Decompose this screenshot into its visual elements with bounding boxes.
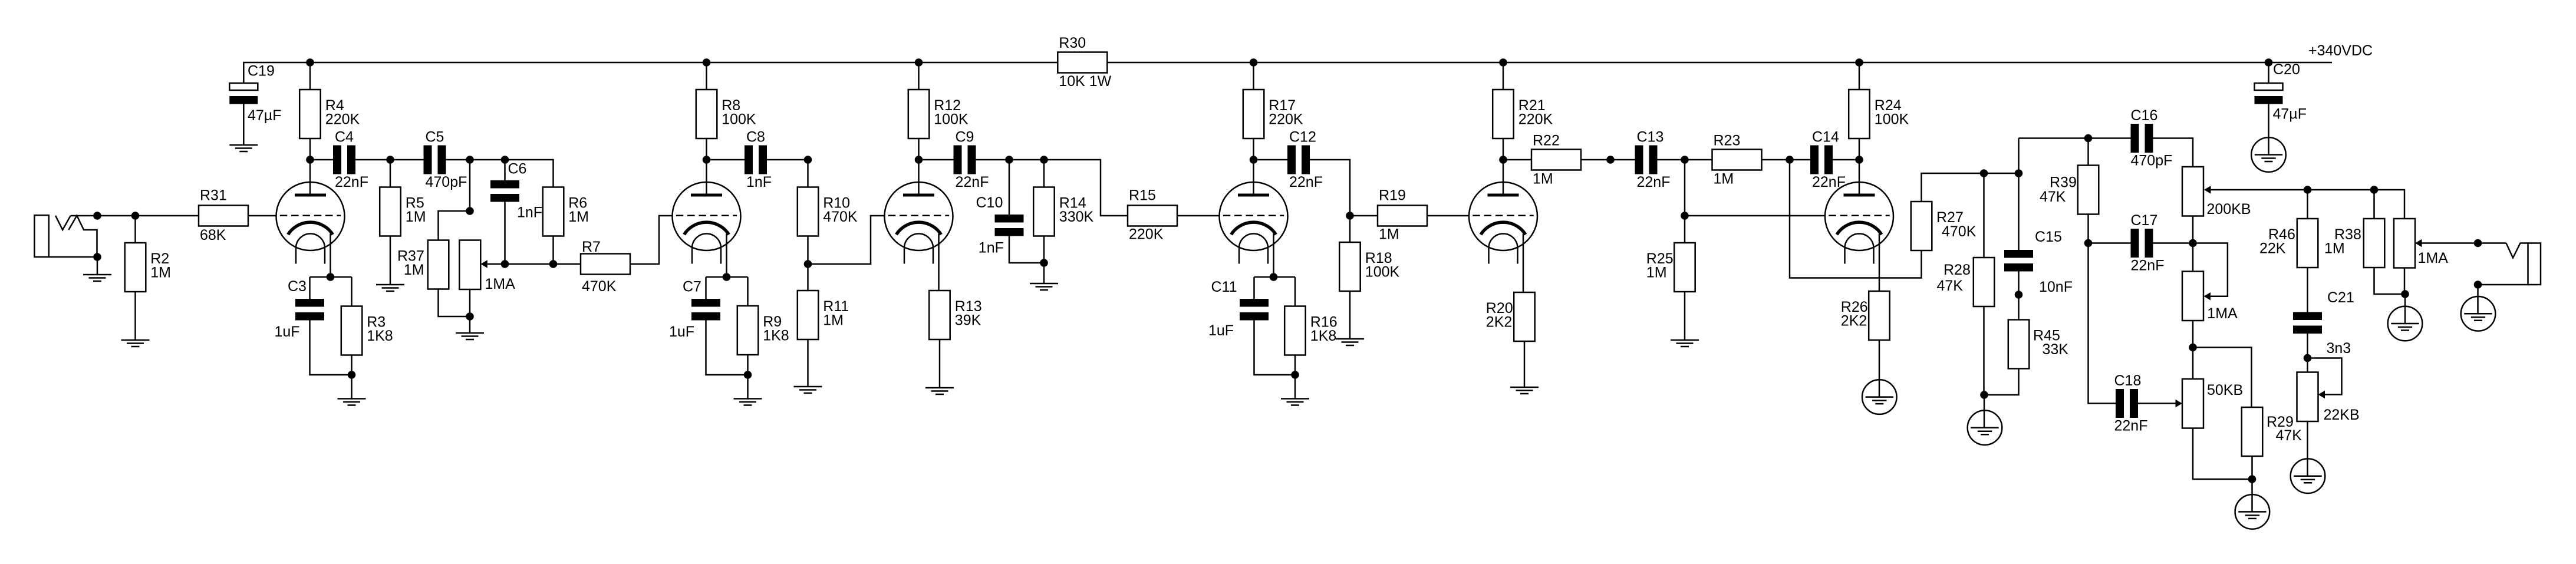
wire R5 node to C5 [390, 159, 424, 161]
wire C7 bottom lead [706, 321, 748, 375]
resistor R45 [2008, 320, 2069, 369]
junction 50KB/R29 bottom [2248, 475, 2257, 483]
svg-text:1M: 1M [1646, 265, 1667, 281]
resistor R39 [2040, 166, 2099, 215]
svg-text:C4: C4 [335, 129, 354, 146]
input jack J1 [34, 215, 97, 257]
wire R38 top lead [2373, 190, 2375, 219]
svg-text:100K: 100K [722, 111, 756, 128]
resistor R6 [543, 187, 589, 236]
ground C19 [229, 145, 258, 151]
svg-text:22nF: 22nF [1637, 174, 1671, 190]
junction tone mid node [2189, 239, 2197, 248]
wire R15 to V4 grid [1177, 215, 1220, 217]
junction rail at R17 [1250, 58, 1258, 67]
chassis ground R26 [1862, 380, 1897, 414]
svg-text:1nF: 1nF [517, 205, 542, 221]
ground stage 2 cathode [734, 399, 762, 405]
wire R2 top lead [134, 216, 136, 243]
wire feedback bus to R7 [487, 263, 581, 265]
resistor R22 [1531, 133, 1581, 187]
wire C18 to 50KB wiper [2138, 403, 2176, 404]
wire V2 plate lead [706, 160, 707, 195]
wire R29 bottom lead [2251, 456, 2253, 512]
junction R22/C13 node [1606, 156, 1615, 164]
wire C13 to R23 [1658, 159, 1713, 161]
capacitor C19 [229, 63, 281, 124]
wire R7 to V2 grid [630, 216, 673, 264]
resistor R37 [397, 240, 449, 289]
svg-text:1uF: 1uF [669, 324, 694, 340]
wire R25 bottom lead [1684, 292, 1686, 340]
wire to R37 top [439, 211, 470, 240]
junction R39/C17 node [2084, 239, 2093, 248]
wire to chassis ground [1984, 395, 1985, 428]
junction C10/R14 bottom [1040, 259, 1048, 267]
junction C6 node [501, 156, 509, 164]
junction R28/R45 bottom [1980, 391, 1988, 399]
wire to R29 top [2193, 348, 2252, 408]
svg-text:10nF: 10nF [2039, 279, 2073, 295]
junction C7/R9 bottom [744, 371, 752, 379]
wire R9 top lead [747, 277, 749, 306]
svg-text:330K: 330K [1059, 209, 1094, 225]
svg-text:+340VDC: +340VDC [2308, 42, 2373, 59]
svg-text:R19: R19 [1379, 187, 1406, 204]
svg-text:1MA: 1MA [2207, 305, 2238, 322]
junction V2 anode node [703, 156, 711, 164]
potentiometer 1MA (stage 1) [459, 240, 515, 293]
capacitor C6 [490, 161, 542, 221]
wire R11 bottom lead [807, 339, 809, 387]
wire R45 bottom lead [1984, 369, 2019, 395]
svg-text:1K8: 1K8 [1310, 328, 1336, 344]
ground C10/R14 [1030, 283, 1058, 290]
wire 200KB bottom lead [2192, 216, 2194, 243]
wire node to R19 [1350, 215, 1378, 217]
wire C5 to C6 node [446, 160, 554, 187]
wire to V3 grid [808, 216, 885, 264]
capacitor C12 [1287, 129, 1323, 191]
wire treble feed [2019, 137, 2131, 139]
wire 1MA pot bottom [469, 289, 471, 333]
junction R23/C14 node [1786, 156, 1794, 164]
svg-text:R15: R15 [1129, 187, 1156, 204]
svg-text:22nF: 22nF [956, 174, 989, 190]
svg-text:C7: C7 [683, 279, 701, 295]
wire C16 to 200KB [2153, 138, 2193, 167]
svg-text:1MA: 1MA [2418, 250, 2449, 266]
wire anode to C8 [707, 159, 745, 161]
wire cathode node 4 [1254, 276, 1296, 278]
junction output node [2474, 239, 2482, 248]
svg-text:470K: 470K [1942, 223, 1977, 240]
wire V6 plate lead [1859, 160, 1860, 195]
wiper arrow of 1MA pot [480, 260, 487, 268]
junction V1 anode node [306, 156, 314, 164]
capacitor C17 [2131, 212, 2165, 274]
triode V3 [885, 182, 953, 264]
wire R4 top lead [309, 62, 311, 90]
triode V2 [673, 182, 741, 264]
junction rail at R8 [703, 58, 711, 67]
junction rail at C20 [2265, 58, 2273, 67]
capacitor C21 [2293, 289, 2354, 357]
resistor R14 [1033, 187, 1093, 236]
resistor R38 [2324, 219, 2384, 268]
wire R8 bottom lead [706, 139, 707, 160]
junction V5 anode node [1499, 156, 1507, 164]
capacitor C13 [1635, 129, 1671, 191]
svg-text:100K: 100K [1875, 111, 1909, 128]
wire jack sleeve [49, 256, 97, 258]
resistor R26 [1841, 291, 1890, 340]
wire jack sleeve to ground [97, 257, 98, 275]
junction C13/R23/R25 node [1681, 156, 1689, 164]
potentiometer 200KB treble [2182, 167, 2251, 217]
wire R5 top lead [390, 160, 391, 187]
junction V6 anode node [1855, 156, 1863, 164]
wire C3 top lead [309, 277, 311, 299]
junction R6 bottom on bus [549, 260, 558, 268]
triode V4 [1220, 182, 1288, 264]
resistor R23 [1712, 133, 1762, 187]
wire C6 bottom lead [504, 202, 506, 264]
wire R18 top lead [1349, 216, 1351, 242]
ground R37/1MA [456, 333, 484, 339]
svg-text:C21: C21 [2327, 289, 2354, 306]
wire R23 to C14 [1762, 159, 1811, 161]
capacitor C14 [1810, 129, 1846, 191]
wire C14 to V6 anode [1833, 159, 1859, 161]
svg-text:220K: 220K [1129, 226, 1164, 243]
wire R2 bottom lead [134, 292, 136, 340]
svg-text:R30: R30 [1059, 35, 1086, 51]
svg-text:68K: 68K [200, 227, 226, 243]
svg-text:1nF: 1nF [979, 240, 1004, 256]
wire R4 bottom lead [309, 139, 311, 160]
wire R12 top lead [918, 62, 920, 90]
junction C10 node [1005, 156, 1013, 164]
svg-text:2K2: 2K2 [1486, 314, 1512, 331]
wire C21 bottom lead [2307, 334, 2308, 372]
wire C10 top lead [1009, 160, 1010, 215]
wire R10 top lead [807, 160, 809, 187]
triode V6 [1825, 182, 1893, 264]
potentiometer 22KB [2297, 372, 2360, 424]
svg-text:2K2: 2K2 [1841, 313, 1867, 329]
wire output wiper to jack [2422, 242, 2506, 244]
wire cathode node 2 [706, 276, 748, 278]
junction R37/1MA bottom [466, 312, 474, 321]
resistor R21 [1493, 90, 1553, 138]
wire V1 cathode lead [330, 234, 331, 278]
junction C15 branch [2015, 169, 2023, 177]
wire V1 plate lead [309, 160, 311, 195]
resistor R28 [1937, 258, 1995, 306]
wire C20 to chassis ground [2268, 104, 2269, 155]
svg-text:C14: C14 [1812, 129, 1839, 146]
svg-text:C19: C19 [248, 63, 275, 80]
svg-text:R7: R7 [582, 239, 601, 255]
resistor R5 [380, 187, 426, 236]
svg-text:47µF: 47µF [248, 107, 281, 124]
wire R16 top lead [1294, 277, 1296, 306]
wire R26 bottom lead [1879, 340, 1880, 397]
wire C4 to R5 node [355, 159, 390, 161]
resistor R29 [2242, 407, 2302, 456]
junction C15/R45 [2015, 291, 2023, 299]
svg-text:22nF: 22nF [1289, 174, 1323, 190]
wire R11 top lead [807, 264, 809, 291]
wire C15 riser [2018, 138, 2020, 250]
svg-text:22nF: 22nF [2114, 418, 2148, 434]
ground R11 [794, 387, 822, 393]
wire mid pot top lead [2192, 243, 2194, 272]
svg-text:C8: C8 [746, 129, 765, 146]
svg-text:1K8: 1K8 [367, 328, 393, 344]
wire output pot bottom lead [2404, 268, 2406, 295]
resistor R2 [125, 243, 171, 292]
wire R16 bottom lead [1294, 355, 1296, 399]
wire C12 to R18/R19 node [1310, 160, 1350, 216]
wire 22KB bottom lead [2307, 421, 2308, 476]
chassis ground C20 [2251, 137, 2286, 172]
svg-text:200KB: 200KB [2207, 201, 2251, 217]
svg-text:1MA: 1MA [485, 276, 515, 292]
resistor R4 [299, 90, 360, 138]
wire 22KB wiper link [2308, 358, 2342, 395]
wire mid feed down [2089, 243, 2116, 404]
wire C9 to R14 node [976, 160, 1128, 216]
junction V3 anode node [915, 156, 923, 164]
svg-text:C13: C13 [1637, 129, 1664, 146]
resistor R27 [1911, 202, 1977, 250]
wire R46 top lead [2307, 190, 2308, 219]
capacitor C11 [1208, 279, 1269, 339]
wire C20 top lead [2268, 62, 2269, 83]
potentiometer 1MA middle [2182, 272, 2238, 322]
junction C6 bottom on bus [501, 260, 509, 268]
svg-text:1nF: 1nF [746, 174, 772, 190]
wire R6 bottom lead [552, 236, 554, 265]
junction R38 top [2370, 186, 2379, 194]
wiper arrow of 1MA middle [2204, 292, 2211, 301]
svg-text:C6: C6 [508, 161, 527, 177]
wire C11 top lead [1253, 277, 1255, 299]
svg-text:1M: 1M [404, 262, 424, 278]
junction R18/R19 node [1346, 212, 1354, 220]
svg-text:C11: C11 [1211, 279, 1237, 295]
svg-text:C18: C18 [2114, 372, 2142, 389]
svg-text:1M: 1M [406, 209, 426, 225]
ground R18 [1336, 339, 1364, 345]
wiper arrow into 50KB [2176, 400, 2183, 408]
wire R17 top lead [1253, 62, 1254, 90]
capacitor C18 [2114, 372, 2148, 434]
wire R14 bottom lead [1043, 236, 1045, 284]
potentiometer 50KB [2182, 379, 2243, 428]
svg-text:1M: 1M [2324, 240, 2345, 257]
svg-text:C9: C9 [956, 129, 974, 146]
junction V4 cathode [1270, 273, 1278, 281]
wire C6 top lead [504, 160, 506, 180]
wire R19 to V5 grid [1427, 215, 1469, 217]
ground R2 [121, 340, 150, 347]
capacitor C8 [745, 129, 772, 191]
wire anode to R22 [1503, 159, 1531, 161]
svg-text:47K: 47K [2276, 427, 2302, 444]
wire R25 top lead [1684, 216, 1686, 243]
junction rail at R21 [1499, 58, 1507, 67]
capacitor C15 [2004, 229, 2073, 295]
capacitor C3 [275, 278, 325, 340]
wire R20 bottom lead [1524, 341, 1526, 387]
wire R37/1MA branch vertical [469, 160, 471, 211]
wire R3 bottom lead [351, 355, 353, 399]
wire cathode node 1 [310, 276, 352, 278]
triode V1 [276, 182, 345, 264]
wire R3 top lead [351, 277, 353, 306]
wire C8 to R10 [767, 159, 808, 161]
wire C3 bottom lead [310, 321, 352, 375]
wire R37 bottom [439, 289, 470, 317]
svg-text:R31: R31 [200, 187, 227, 204]
svg-text:22nF: 22nF [335, 174, 368, 190]
svg-text:C5: C5 [426, 129, 444, 146]
svg-text:470pF: 470pF [2131, 153, 2173, 169]
junction R28 branch [1980, 169, 1988, 177]
ground R20 [1510, 387, 1539, 394]
wire R21 top lead [1503, 62, 1504, 90]
wire C17 to pot node [2153, 242, 2193, 244]
junction R5 node [386, 156, 394, 164]
wire R21 bottom lead [1503, 139, 1504, 160]
wire R14 top lead [1043, 160, 1045, 187]
wire node to R27 bottom [1790, 160, 1922, 278]
wire V5 cathode lead [1523, 234, 1524, 293]
resistor R31 [199, 187, 248, 244]
wiper arrow of output 1MA [2415, 239, 2422, 248]
capacitor C7 [669, 279, 720, 341]
wire V3 plate lead [918, 160, 920, 195]
resistor R13 [929, 291, 981, 339]
wire V2 cathode lead [726, 234, 727, 278]
svg-text:22nF: 22nF [2131, 258, 2165, 274]
svg-text:47µF: 47µF [2273, 106, 2307, 123]
svg-text:1M: 1M [1379, 226, 1399, 243]
svg-text:C20: C20 [2273, 61, 2300, 78]
svg-text:1M: 1M [1714, 171, 1734, 187]
junction V1 cathode [327, 273, 335, 281]
resistor R24 [1849, 90, 1909, 138]
wire R24 top lead [1859, 62, 1860, 90]
capacitor C9 [954, 129, 989, 191]
potentiometer 1MA output [2394, 219, 2448, 268]
triode V5 [1469, 182, 1537, 264]
capacitor C16 [2131, 107, 2173, 169]
wire sleeve to chassis ground [2477, 285, 2479, 314]
svg-text:1M: 1M [823, 312, 844, 329]
wire R13 bottom lead [939, 339, 941, 388]
svg-text:470pF: 470pF [426, 174, 467, 190]
svg-text:50KB: 50KB [2207, 382, 2243, 398]
resistor R11 [798, 291, 849, 339]
svg-text:47K: 47K [1937, 278, 1964, 294]
svg-text:1uF: 1uF [1208, 322, 1234, 339]
chassis ground output pot [2388, 306, 2423, 341]
junction rail at R12 [915, 58, 923, 67]
wire node down to grid row [1684, 160, 1686, 216]
junction R10 top node [804, 156, 812, 164]
resistor R8 [696, 90, 756, 138]
svg-text:220K: 220K [1269, 111, 1303, 128]
resistor R17 [1243, 90, 1303, 138]
resistor R30 [1058, 35, 1111, 90]
svg-text:1M: 1M [568, 209, 589, 225]
resistor R10 [798, 187, 858, 236]
svg-text:C3: C3 [288, 278, 307, 295]
wire R12 bottom lead [918, 139, 920, 160]
resistor R7 [581, 239, 630, 295]
wire R17 bottom lead [1253, 139, 1254, 160]
junction rail at R24 [1855, 58, 1863, 67]
wiper arrow of 200KB [2204, 186, 2211, 194]
ground stage 4 cathode [1281, 399, 1309, 405]
junction C21/22KB [2304, 354, 2312, 362]
capacitor C10 [976, 194, 1024, 256]
wire C7 top lead [705, 277, 707, 299]
wire R28 top lead [1983, 173, 1985, 258]
output jack J2 [2506, 243, 2541, 285]
wire R28 bottom lead [1983, 306, 1985, 395]
svg-text:C10: C10 [976, 194, 1003, 211]
junction R38/output pot bottom [2401, 290, 2409, 298]
svg-text:R28: R28 [1943, 262, 1971, 278]
wire R39 bottom lead [2087, 215, 2089, 243]
resistor R16 [1284, 306, 1337, 355]
junction V4 anode node [1250, 156, 1258, 164]
wire C17 left lead [2089, 242, 2131, 244]
svg-text:10K 1W: 10K 1W [1059, 73, 1111, 90]
resistor R3 [341, 306, 393, 355]
svg-text:100K: 100K [934, 111, 969, 128]
wire anode to C4 [310, 159, 333, 161]
junction output sleeve [2474, 281, 2482, 289]
svg-text:R22: R22 [1533, 133, 1560, 149]
resistor R12 [908, 90, 969, 138]
wire treble wiper bus [2211, 190, 2405, 219]
wire R5 bottom lead [390, 236, 391, 285]
junction R37 branch node [466, 156, 474, 164]
wire anode to C9 [919, 159, 954, 161]
junction V2 cathode [723, 273, 731, 281]
junction 50KB top node [2189, 344, 2197, 352]
svg-text:100K: 100K [1365, 264, 1400, 281]
wire anode to C12 [1254, 159, 1288, 161]
resistor R9 [737, 306, 789, 355]
svg-text:220K: 220K [325, 111, 360, 128]
wire +340VDC rail right segment (R30 to right end) [1108, 62, 2333, 64]
svg-text:470K: 470K [823, 209, 858, 225]
chassis ground 22KB [2291, 459, 2325, 493]
wire R24 bottom lead [1859, 139, 1860, 160]
wire R31 to V1 grid [248, 215, 276, 217]
resistor R25 [1646, 243, 1695, 292]
wire R8 top lead [706, 62, 707, 90]
wire output jack sleeve [2478, 284, 2528, 286]
wire R9 bottom lead [747, 355, 749, 398]
